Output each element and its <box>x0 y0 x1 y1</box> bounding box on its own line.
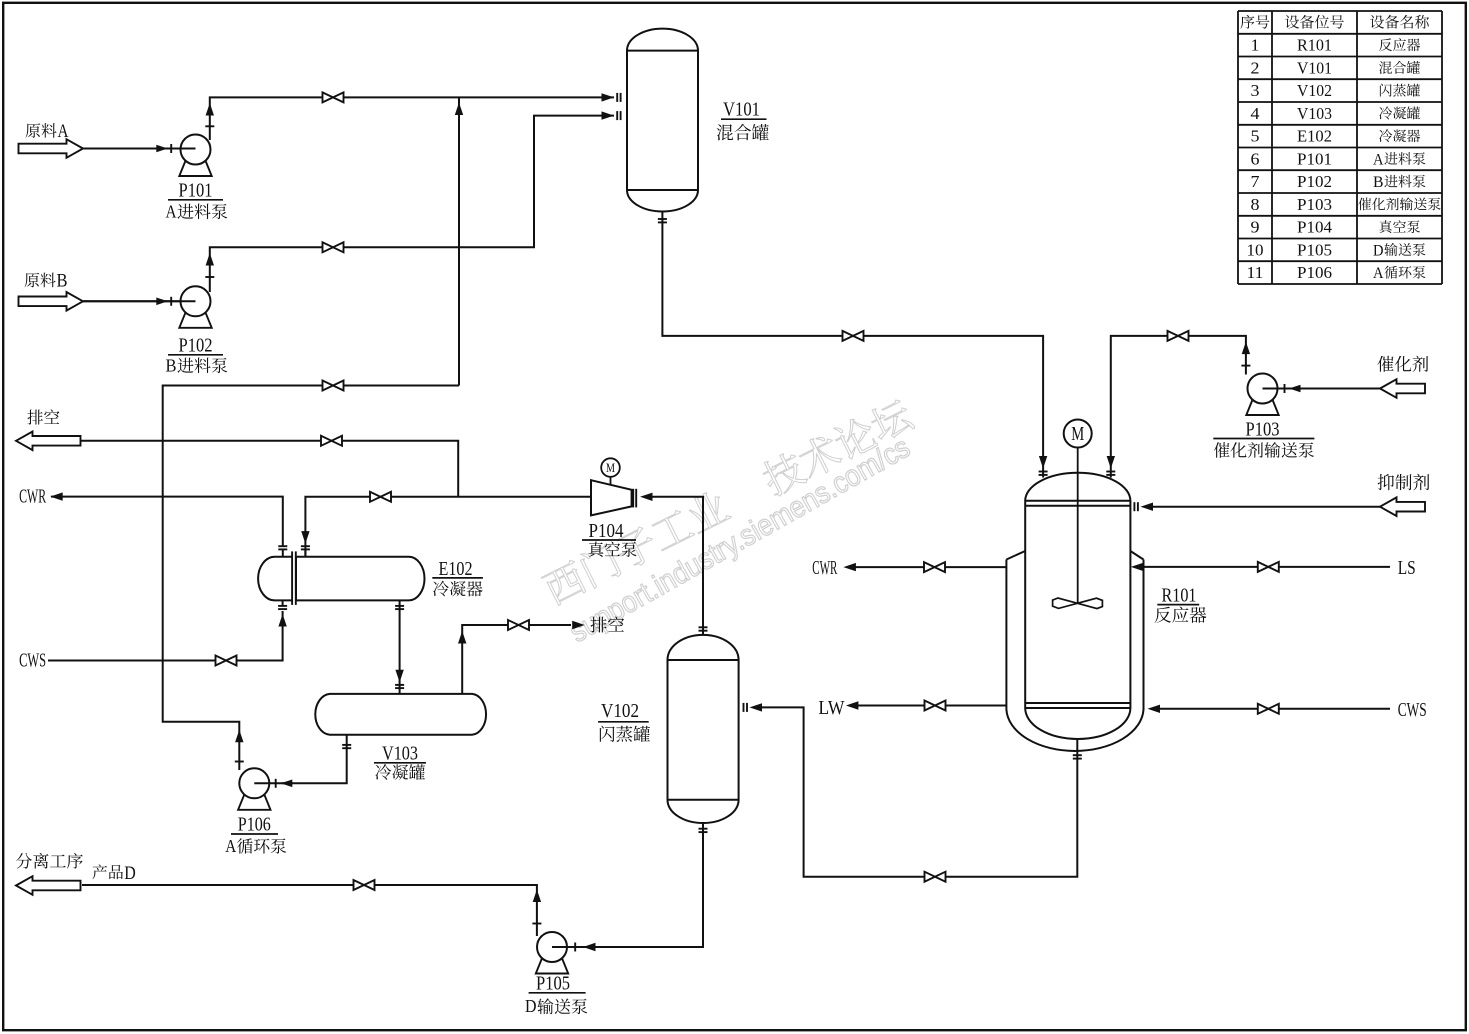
svg-text:10: 10 <box>1247 240 1264 259</box>
svg-text:V101: V101 <box>1297 58 1332 77</box>
svg-text:P101: P101 <box>179 181 213 202</box>
svg-text:1: 1 <box>1251 36 1260 55</box>
svg-text:CWS: CWS <box>19 650 46 671</box>
svg-text:CWS: CWS <box>1398 700 1427 721</box>
svg-text:E102: E102 <box>1297 127 1332 146</box>
svg-text:2: 2 <box>1251 58 1260 77</box>
svg-text:7: 7 <box>1251 172 1261 191</box>
svg-text:11: 11 <box>1247 263 1264 282</box>
svg-text:8: 8 <box>1251 195 1260 214</box>
svg-text:9: 9 <box>1251 218 1260 237</box>
svg-text:A: A <box>225 836 236 856</box>
svg-text:P105: P105 <box>536 973 570 994</box>
svg-text:P101: P101 <box>1297 149 1332 168</box>
svg-text:6: 6 <box>1251 149 1260 168</box>
svg-text:4: 4 <box>1251 104 1261 123</box>
svg-text:3: 3 <box>1251 81 1260 100</box>
svg-text:P102: P102 <box>1297 172 1332 191</box>
svg-text:M: M <box>606 460 615 475</box>
svg-text:CWR: CWR <box>19 487 46 508</box>
svg-text:P102: P102 <box>179 336 213 357</box>
svg-text:A: A <box>58 121 69 142</box>
svg-text:D: D <box>525 996 537 1016</box>
svg-text:D: D <box>124 863 136 884</box>
svg-text:V102: V102 <box>1297 81 1332 100</box>
svg-text:P103: P103 <box>1246 420 1280 441</box>
svg-text:V101: V101 <box>723 100 760 121</box>
svg-text:D: D <box>1373 242 1384 259</box>
svg-text:LS: LS <box>1398 558 1416 579</box>
svg-text:A: A <box>1373 151 1384 168</box>
svg-text:P104: P104 <box>1297 218 1332 237</box>
svg-text:R101: R101 <box>1297 36 1332 55</box>
svg-text:B: B <box>1373 174 1384 191</box>
svg-text:LW: LW <box>818 698 845 719</box>
svg-text:R101: R101 <box>1162 586 1197 607</box>
svg-text:B: B <box>57 271 68 292</box>
svg-text:5: 5 <box>1251 127 1260 146</box>
svg-text:V103: V103 <box>1297 104 1332 123</box>
svg-text:P104: P104 <box>589 521 624 542</box>
svg-text:V103: V103 <box>382 744 418 765</box>
svg-text:A: A <box>166 201 177 221</box>
svg-text:P106: P106 <box>1297 263 1332 282</box>
svg-text:P106: P106 <box>238 815 271 836</box>
svg-text:B: B <box>166 356 177 376</box>
svg-text:CWR: CWR <box>812 558 837 579</box>
svg-text:A: A <box>1373 265 1384 282</box>
svg-text:P103: P103 <box>1297 195 1332 214</box>
svg-text:M: M <box>1071 423 1084 445</box>
svg-text:E102: E102 <box>439 559 473 580</box>
svg-text:P105: P105 <box>1297 240 1332 259</box>
svg-text:V102: V102 <box>601 701 639 722</box>
